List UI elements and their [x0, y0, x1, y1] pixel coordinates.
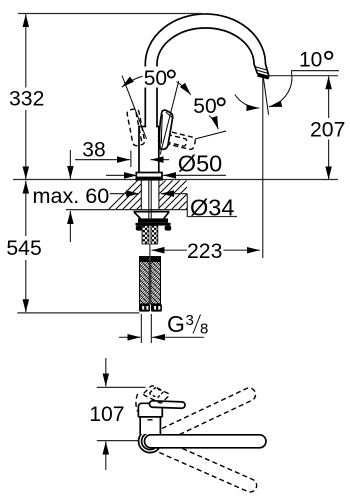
107 top arrow	[105, 358, 107, 386]
base flange	[136, 173, 162, 180]
dim 332 line	[25, 14, 27, 96]
max60 text	[31, 185, 108, 205]
lever axis line solid	[160, 81, 179, 155]
207 top reference line	[267, 75, 338, 77]
svg-text:50: 50	[144, 67, 167, 90]
hole edges	[140, 180, 142, 210]
dim 332 top reference line	[18, 13, 202, 15]
svg-text:207: 207	[310, 118, 345, 141]
body column	[139, 127, 159, 174]
spout arm top view	[145, 435, 267, 448]
counter top surface line	[13, 179, 338, 181]
water stream vertical line	[262, 78, 264, 259]
50deg no.2 leader	[209, 116, 218, 130]
dim O34 line right + bend	[161, 193, 187, 195]
water stream tilted line	[263, 78, 268, 115]
50deg no.1 arc right piece	[174, 80, 191, 95]
swivel outer circle	[139, 430, 162, 453]
right bolt	[165, 226, 172, 231]
mounting nut black	[138, 218, 168, 222]
lever solid	[160, 110, 173, 149]
svg-text:Ø34: Ø34	[190, 194, 234, 220]
dim 207 line	[328, 76, 330, 118]
svg-text:545: 545	[6, 237, 41, 260]
left bolt	[136, 226, 143, 231]
pipe mask into body	[146, 125, 156, 128]
svg-text:38: 38	[82, 138, 105, 161]
10deg right arc	[269, 71, 292, 107]
washer trapezoid	[134, 212, 170, 219]
hose left	[140, 257, 150, 305]
dim 545 base line	[17, 312, 139, 314]
dim 223 line right	[224, 249, 260, 251]
O34 text	[189, 198, 232, 216]
aerator outlet thick edge	[257, 75, 268, 78]
dim 332 text	[7, 88, 45, 109]
spout tube	[145, 14, 269, 127]
hidden dashed edge left of body	[136, 394, 138, 412]
50deg no.2 label	[193, 95, 227, 116]
G3/8 dim left arrow	[119, 336, 140, 338]
lever dashed left position	[126, 108, 145, 146]
dim max60 top arrow	[69, 150, 71, 179]
dim 38 line right	[151, 159, 169, 161]
body top view	[138, 403, 162, 417]
hose end fittings	[139, 304, 150, 312]
svg-text:3: 3	[186, 312, 194, 329]
50deg no.1 label	[143, 67, 177, 88]
107 top ref line	[97, 386, 146, 388]
dashed swivel arm lower	[155, 439, 259, 494]
svg-text:223: 223	[187, 240, 222, 263]
545 text	[5, 237, 43, 258]
hidden dashes in neck	[148, 419, 156, 421]
dim 38 extension line	[130, 151, 132, 168]
50deg no.1 arc left piece	[122, 76, 144, 87]
O50 text	[177, 153, 223, 173]
10deg underline	[291, 70, 339, 72]
svg-text:50: 50	[193, 95, 216, 118]
dim max60 bottom arrow	[69, 211, 71, 242]
svg-text:107: 107	[89, 403, 124, 426]
hose right	[151, 257, 161, 305]
svg-text:332: 332	[9, 87, 44, 110]
counter bottom line	[66, 209, 187, 211]
dim 207 text	[308, 119, 345, 140]
dashed lever axis line	[195, 131, 226, 139]
centerline below stud	[149, 244, 151, 257]
dim O50 line left	[106, 174, 137, 176]
107 bottom arrow	[105, 442, 107, 471]
dashed lever top view	[144, 386, 170, 403]
aerator band lines	[255, 67, 268, 74]
dim O50 line right	[163, 174, 226, 176]
hatch countertop left block	[100, 178, 224, 218]
10deg left arc	[235, 95, 259, 109]
neck top view	[140, 417, 160, 434]
svg-text:10: 10	[299, 48, 322, 71]
svg-text:Ø50: Ø50	[178, 150, 222, 176]
dim 223 line left	[152, 249, 188, 251]
hose crimp collars	[140, 257, 150, 263]
107 bottom ref line	[97, 440, 139, 442]
stud lines in hole	[148, 180, 150, 210]
dim 38 line left	[75, 159, 130, 161]
svg-text:8: 8	[200, 321, 208, 338]
svg-text:max. 60: max. 60	[33, 183, 110, 208]
G3/8 extension lines	[140, 314, 142, 343]
dashed swivel arm upper	[154, 386, 257, 444]
swivel inner circle	[142, 433, 159, 450]
solid lever top view	[149, 401, 185, 409]
lever dashed right position	[157, 129, 196, 150]
body bottom edge	[138, 416, 162, 418]
base flange dark bottom	[136, 177, 162, 180]
threaded stud	[142, 226, 149, 245]
lever axis line left	[122, 76, 147, 140]
svg-text:G: G	[167, 311, 185, 337]
dim 545 line	[25, 181, 27, 236]
G3/8 dim right arrow	[152, 336, 204, 338]
dim O34 line left	[110, 193, 139, 195]
